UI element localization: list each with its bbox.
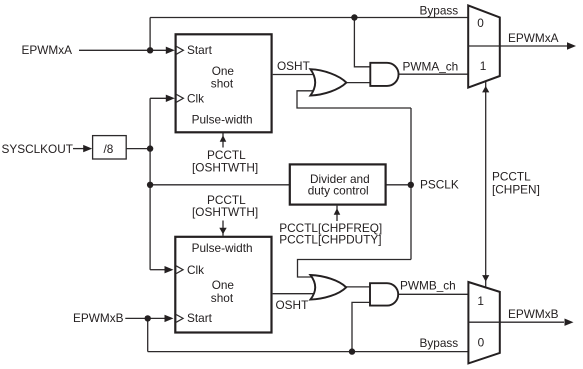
arrowhead EPWMxB output	[565, 319, 574, 326]
svg-text:[OSHTWTH]: [OSHTWTH]	[192, 205, 258, 219]
wire PCCTL OSHTWTH arrow down to box B	[222, 221, 224, 236]
arrowhead EPWMxB into Start B	[165, 315, 174, 322]
junction dot EPWMxA input	[147, 47, 153, 53]
wire OSHT A	[273, 74, 315, 76]
wire OSHT B	[273, 293, 315, 295]
wire vertical bypass-A to EPWMxA junction	[149, 18, 151, 51]
svg-text:SYSCLKOUT: SYSCLKOUT	[2, 142, 73, 156]
wire Clk B	[150, 269, 166, 271]
wire feedback A (PSCLK to OR-A)	[297, 91, 411, 108]
wire Clk A	[150, 97, 168, 99]
wire divider output to PSCLK node	[387, 184, 412, 186]
svg-text:0: 0	[478, 335, 485, 349]
svg-text:duty control: duty control	[308, 184, 369, 198]
wire PSCLK feed to divider	[150, 184, 289, 186]
wire PCCTL OSHTWTH arrow up to box A	[222, 133, 224, 148]
svg-text:shot: shot	[211, 291, 234, 305]
mux B divider line	[468, 321, 499, 323]
wire Bypass A horizontal	[150, 17, 468, 19]
wire AND-A out to mux A	[398, 73, 468, 75]
/8 divider box	[93, 136, 127, 159]
one-shot box B (Pulse-width / One shot)	[175, 237, 271, 333]
arrowhead EPWMxA into Start A	[166, 47, 175, 54]
wire OR-B out to AND-B	[346, 286, 370, 288]
wire mux select line (PCCTL[CHPEN])	[485, 82, 487, 287]
arrowhead SYSCLKOUT into /8	[83, 145, 92, 152]
mux B trapezoid	[468, 282, 499, 363]
svg-text:Bypass: Bypass	[420, 4, 459, 18]
svg-text:0: 0	[477, 16, 484, 30]
wire /8 output	[127, 148, 151, 150]
svg-text:PCCTL[CHPDUTY]: PCCTL[CHPDUTY]	[279, 232, 381, 246]
wire EPWMxB input	[125, 317, 166, 319]
svg-text:OSHT: OSHT	[276, 298, 309, 312]
Divider and duty control box	[290, 164, 386, 204]
mux A trapezoid	[468, 5, 500, 87]
wire bypass to AND-A top input	[354, 18, 370, 67]
chevron Clk A	[176, 94, 183, 102]
arrowhead Clk A	[166, 95, 175, 102]
svg-text:[OSHTWTH]: [OSHTWTH]	[192, 160, 258, 174]
svg-text:OSHT: OSHT	[277, 59, 310, 73]
wire EPWMxB output	[500, 321, 564, 323]
svg-text:EPWMxB: EPWMxB	[73, 311, 124, 325]
svg-text:EPWMxB: EPWMxB	[508, 307, 559, 321]
wire OR-A out to AND-A	[346, 82, 371, 84]
svg-text:EPWMxA: EPWMxA	[22, 43, 73, 57]
junction dot PSCLK feed	[147, 182, 153, 188]
svg-text:Clk: Clk	[187, 91, 204, 105]
svg-text:Start: Start	[187, 311, 213, 325]
svg-text:shot: shot	[211, 77, 234, 91]
svg-text:PWMB_ch: PWMB_ch	[400, 278, 456, 292]
wire PCCTL CHPFREQ/CHPDUTY arrow up to divider	[336, 206, 338, 221]
wire PSCLK vertical	[410, 108, 412, 260]
svg-text:1: 1	[480, 59, 487, 73]
junction dot EPWMxB input	[145, 315, 151, 321]
wire SYSCLKOUT to /8	[73, 148, 85, 150]
wire EPWMxA input	[79, 49, 168, 51]
svg-text:PCCTL: PCCTL	[492, 169, 531, 183]
OR gate A	[310, 69, 346, 95]
svg-text:Pulse-width: Pulse-width	[192, 113, 253, 127]
wire Bypass B horizontal	[148, 351, 469, 353]
chevron Start A	[176, 46, 183, 54]
wire vertical /8 junction down to Clk B	[149, 98, 151, 269]
wire feedback B (PSCLK to OR-B)	[298, 260, 412, 278]
arrowhead up into divider box	[334, 208, 341, 215]
arrowhead Clk B	[165, 266, 174, 273]
arrowhead PCCTL up into box A	[220, 135, 227, 142]
wire bypass B to AND-B bottom input	[352, 302, 370, 351]
AND gate A	[370, 63, 398, 86]
svg-text:Bypass: Bypass	[420, 336, 459, 350]
wire vertical EPWMxB junction to bypass B	[147, 318, 149, 351]
arrowhead select down to mux B	[482, 275, 489, 282]
arrowhead select up to mux A	[482, 86, 489, 93]
mux A divider line	[468, 45, 500, 47]
chevron Clk B	[176, 266, 183, 274]
svg-text:PWMA_ch: PWMA_ch	[403, 59, 459, 73]
one-shot box A (Pulse-width / One shot)	[176, 34, 272, 132]
wire AND-B out to mux B	[398, 293, 469, 295]
junction dot /8 output	[147, 145, 153, 151]
AND gate B	[370, 283, 398, 305]
chevron Start B	[176, 315, 183, 323]
junction dot PSCLK node	[408, 182, 414, 188]
svg-text:EPWMxA: EPWMxA	[508, 31, 559, 45]
svg-text:Start: Start	[187, 43, 213, 57]
svg-text:[CHPEN]: [CHPEN]	[492, 182, 540, 196]
arrowhead PCCTL down into box B	[219, 228, 226, 234]
wire EPWMxA output	[500, 45, 567, 47]
arrowhead EPWMxA output	[567, 42, 576, 49]
junction dot bypass B	[349, 348, 355, 354]
OR gate B	[310, 275, 346, 300]
svg-text:1: 1	[477, 294, 484, 308]
junction dot bypass A	[351, 14, 357, 20]
svg-text:Pulse-width: Pulse-width	[192, 241, 253, 255]
svg-text:PSCLK: PSCLK	[420, 178, 459, 192]
svg-text:Clk: Clk	[187, 263, 204, 277]
svg-text:/8: /8	[104, 142, 114, 156]
